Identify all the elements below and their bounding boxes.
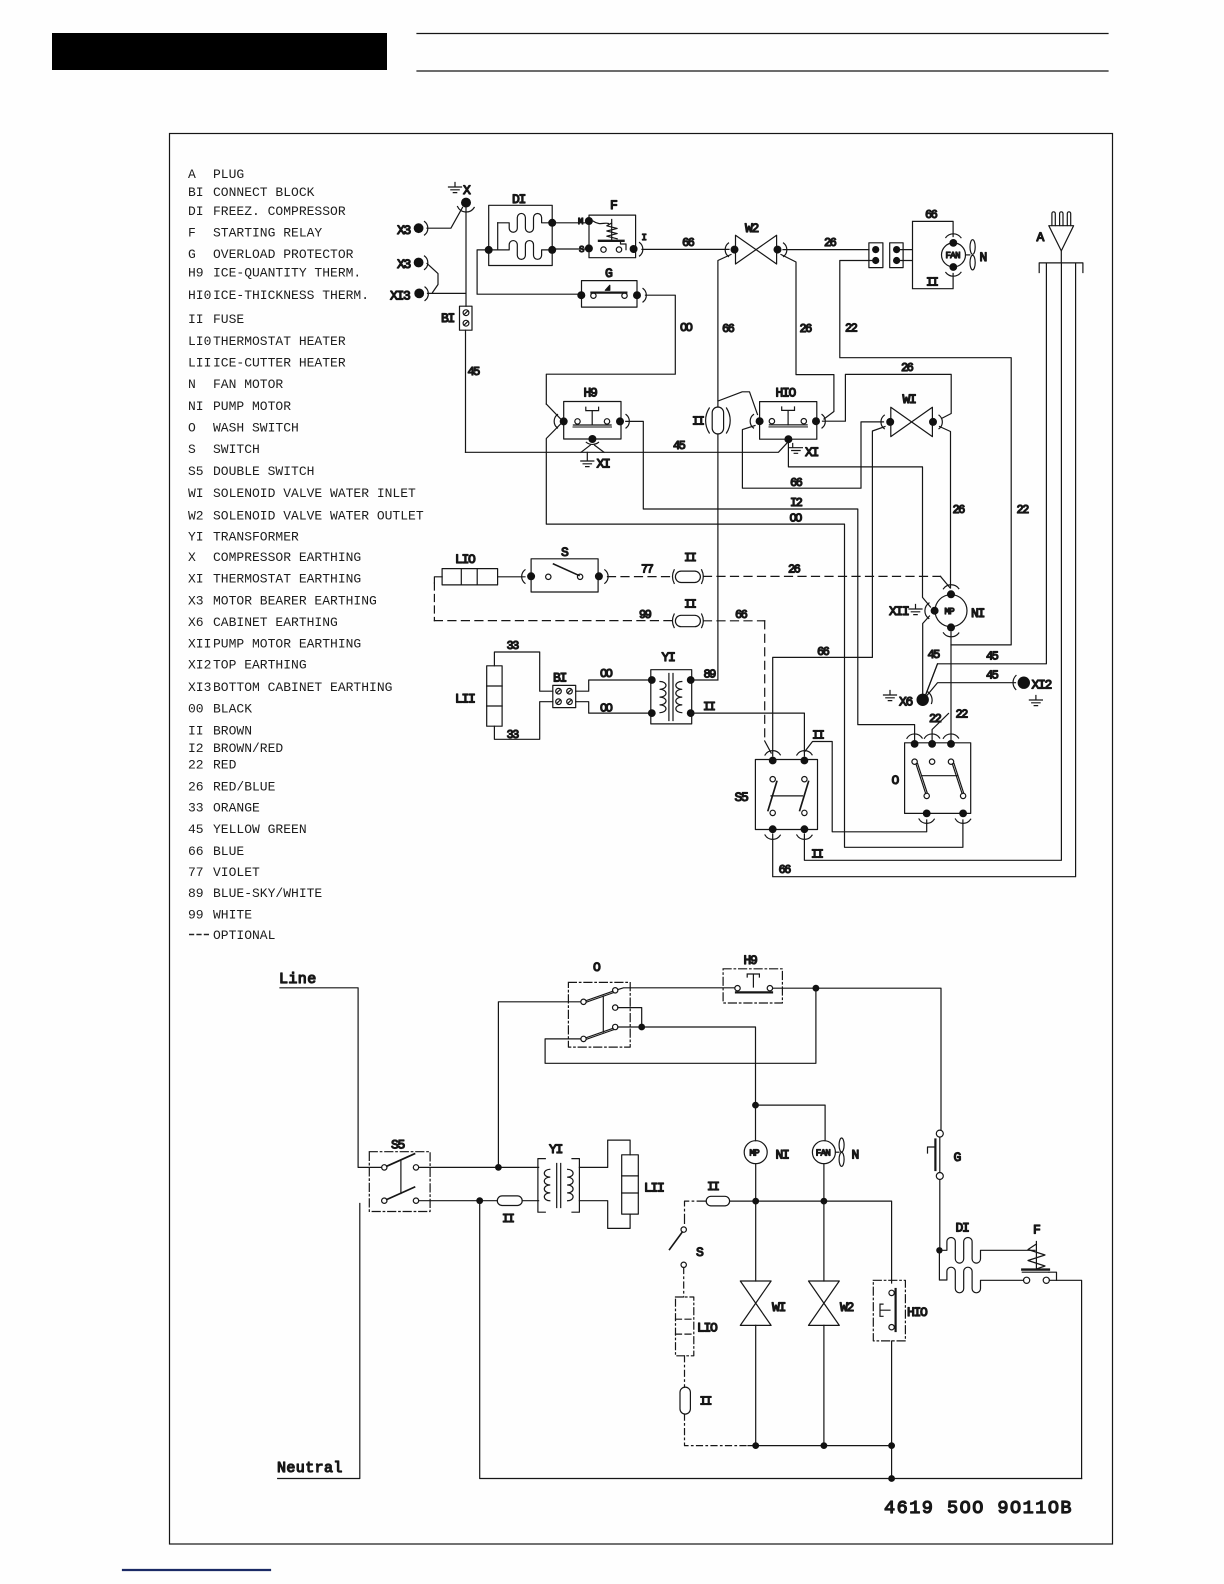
- wire 66 H10 left to W1 left: [742, 422, 883, 488]
- svg-text:IIFUSE: IIFUSE: [188, 312, 244, 327]
- svg-text:II: II: [811, 848, 823, 862]
- wire 45 X6 to X12: [927, 683, 1016, 696]
- wire Neutral to S5: [278, 1204, 360, 1479]
- svg-text:45: 45: [468, 365, 481, 379]
- wire G to D1 junction: [939, 1180, 941, 1251]
- svg-text:22: 22: [956, 708, 969, 722]
- svg-text:45: 45: [986, 669, 999, 683]
- wire D1 S to F: [552, 248, 589, 250]
- svg-text:33ORANGE: 33ORANGE: [188, 801, 260, 816]
- node junction fan rail: [821, 1198, 828, 1205]
- connect block pair: [869, 243, 883, 268]
- wire II S5 right top to O switch: [804, 742, 926, 832]
- svg-text:LII: LII: [644, 1181, 664, 1196]
- svg-text:XI2TOP EARTHING: XI2TOP EARTHING: [188, 658, 307, 673]
- wire O top to H9: [618, 988, 735, 990]
- wire Y1 to L11 bottom: [579, 1201, 630, 1229]
- header rule bottom: [417, 70, 1108, 72]
- svg-text:XI: XI: [597, 457, 611, 472]
- node junction neutral branch: [476, 1197, 483, 1204]
- fuse II transformer feed: [497, 1196, 522, 1206]
- svg-text:II: II: [926, 276, 938, 290]
- wire 66 W1 left down to S5: [773, 427, 885, 757]
- svg-text:II: II: [812, 729, 824, 743]
- fan propeller: [966, 254, 970, 256]
- wire 66 F to W2: [642, 248, 729, 250]
- wire 45 X6 up to cord: [926, 664, 938, 695]
- wire 00 H9 left to O switch: [546, 404, 963, 847]
- node junction O motor feed: [638, 1024, 645, 1031]
- node junction G to D1: [936, 1247, 942, 1253]
- svg-text:66: 66: [722, 322, 735, 336]
- svg-text:MP: MP: [945, 607, 955, 617]
- svg-text:26: 26: [901, 361, 914, 375]
- svg-text:OO: OO: [790, 512, 803, 526]
- node X12 top earthing: [1018, 677, 1030, 689]
- node junction neutral rail: [888, 1475, 895, 1482]
- svg-text:66: 66: [817, 645, 830, 659]
- svg-text:Line: Line: [279, 971, 317, 988]
- svg-text:I2BROWN/RED: I2BROWN/RED: [188, 741, 283, 756]
- wire O switch feed up: [498, 1002, 581, 1168]
- wire O middle to motors: [618, 1008, 642, 1027]
- svg-text:XI: XI: [805, 445, 819, 460]
- svg-text:66: 66: [790, 476, 803, 490]
- wire 26 H10 right to W1 right: [823, 374, 952, 421]
- svg-text:WI: WI: [903, 392, 917, 407]
- wire 45 cord to X6: [926, 263, 1047, 694]
- svg-text:FAN: FAN: [946, 251, 961, 261]
- wire 00 B1 to Y1 bottom: [576, 702, 651, 713]
- wire 45 H10 bottom to pump earthing: [788, 443, 930, 607]
- svg-text:X3: X3: [397, 257, 411, 272]
- wire 66 W2 left down to fuse: [718, 255, 731, 408]
- svg-text:66BLUE: 66BLUE: [188, 844, 244, 859]
- svg-text:II: II: [703, 700, 715, 714]
- svg-text:BI: BI: [553, 671, 567, 686]
- wire H9 out to G with junction: [773, 988, 941, 1129]
- wire 26 W2 right down to H10: [781, 255, 834, 420]
- svg-text:FSTARTING RELAY: FSTARTING RELAY: [188, 226, 322, 241]
- svg-text:MP: MP: [750, 1148, 760, 1158]
- svg-text:33: 33: [507, 728, 520, 742]
- svg-text:45: 45: [673, 439, 686, 453]
- svg-text:77: 77: [641, 563, 654, 577]
- svg-text:X6: X6: [899, 695, 913, 710]
- svg-text:F: F: [1033, 1223, 1040, 1238]
- wire Y1 to L11 top: [579, 1140, 630, 1167]
- svg-text:NFAN MOTOR: NFAN MOTOR: [188, 377, 283, 392]
- svg-text:XIIPUMP MOTOR EARTHING: XIIPUMP MOTOR EARTHING: [188, 637, 361, 652]
- wire X3 lower jog to X13 wire: [427, 264, 438, 293]
- wire junction to pump: [755, 1105, 757, 1141]
- svg-text:66: 66: [925, 208, 938, 222]
- wire S5 to Y1 top with junction: [419, 1166, 539, 1168]
- svg-text:H9ICE-QUANTITY THERM.: H9ICE-QUANTITY THERM.: [188, 266, 361, 281]
- svg-text:LIO: LIO: [697, 1321, 718, 1336]
- svg-text:M: M: [578, 217, 583, 227]
- svg-text:S: S: [579, 245, 584, 255]
- switch S optional: [681, 1227, 686, 1232]
- svg-text:X3MOTOR BEARER EARTHING: X3MOTOR BEARER EARTHING: [188, 594, 377, 609]
- wire 00 B1 to Y1 top: [576, 680, 651, 691]
- wire D1 M to F: [552, 222, 589, 224]
- svg-text:Neutral: Neutral: [277, 1460, 343, 1477]
- svg-text:89BLUE-SKY/WHITE: 89BLUE-SKY/WHITE: [188, 886, 322, 901]
- wire 45 B1 down: [465, 330, 467, 452]
- wire junction to fan: [756, 1105, 826, 1141]
- wire 66 cord to S5: [773, 263, 1076, 876]
- svg-text:GOVERLOAD PROTECTOR: GOVERLOAD PROTECTOR: [188, 247, 354, 262]
- wire Line to S5: [280, 988, 382, 1168]
- svg-text:XCOMPRESSOR EARTHING: XCOMPRESSOR EARTHING: [188, 550, 361, 565]
- svg-text:45: 45: [928, 648, 941, 662]
- svg-text:NIPUMP MOTOR: NIPUMP MOTOR: [188, 399, 291, 414]
- svg-text:66: 66: [682, 236, 695, 250]
- svg-text:XII: XII: [889, 604, 909, 619]
- svg-text:HI0ICE-THICKNESS THERM.: HI0ICE-THICKNESS THERM.: [188, 288, 369, 303]
- svg-text:66: 66: [735, 608, 748, 622]
- node X earthing dot: [461, 198, 471, 208]
- svg-text:XITHERMOSTAT EARTHING: XITHERMOSTAT EARTHING: [188, 572, 361, 587]
- svg-text:YI: YI: [549, 1142, 563, 1157]
- valve rail bottom: [748, 1445, 892, 1447]
- svg-text:33: 33: [507, 639, 520, 653]
- ground X compressor earthing: [449, 183, 462, 193]
- svg-text:NI: NI: [776, 1148, 790, 1163]
- svg-text:DIFREEZ. COMPRESSOR: DIFREEZ. COMPRESSOR: [188, 204, 346, 219]
- wire S5 to fuse II: [419, 1200, 498, 1202]
- wire motors to valve rail: [756, 1164, 824, 1201]
- svg-text:APLUG: APLUG: [188, 167, 244, 182]
- svg-text:F: F: [610, 198, 617, 213]
- wire L10 to S: [498, 576, 525, 578]
- wire 00 G right to H9 left: [546, 295, 675, 404]
- svg-text:22: 22: [845, 322, 858, 336]
- svg-text:99WHITE: 99WHITE: [188, 908, 252, 923]
- wire 26 dashed fuse to pump motor: [704, 575, 941, 577]
- svg-text:II: II: [700, 1395, 712, 1409]
- ground X1 at H9: [586, 442, 598, 444]
- svg-text:OO: OO: [680, 321, 693, 335]
- svg-text:H9: H9: [744, 953, 758, 968]
- rail to valves: [730, 1201, 892, 1283]
- svg-text:LIIICE-CUTTER HEATER: LIIICE-CUTTER HEATER: [188, 356, 346, 371]
- svg-text:S5: S5: [735, 790, 749, 805]
- svg-text:OPTIONAL: OPTIONAL: [213, 928, 275, 943]
- node junction S5 to O feed: [495, 1164, 502, 1171]
- svg-text:O: O: [593, 960, 601, 975]
- wire 26 W1 right down to pump motor: [940, 427, 951, 589]
- pump motor N1 (line diagram): [744, 1141, 767, 1164]
- fan motor N loop: [897, 221, 954, 288]
- svg-text:26: 26: [824, 236, 837, 250]
- svg-text:LII: LII: [455, 692, 475, 707]
- ground X1 at H10: [789, 444, 802, 454]
- fan motor N (line diagram): [812, 1141, 835, 1164]
- node junction H9 output: [813, 985, 820, 992]
- wire X3 to X dot: [427, 208, 463, 229]
- svg-text:NI: NI: [971, 606, 985, 621]
- wire dashed optional S chain: [685, 1201, 707, 1225]
- svg-text:A: A: [1037, 230, 1045, 245]
- plug cord clamp: [1039, 251, 1083, 273]
- svg-text:4619 5OO 9O11OB: 4619 5OO 9O11OB: [884, 1498, 1073, 1519]
- wire 33 L11 bottom to B1: [494, 702, 552, 740]
- wire X13 to B1: [428, 292, 466, 294]
- svg-text:LIO: LIO: [455, 552, 476, 567]
- node junction W2 rail: [821, 1442, 828, 1449]
- svg-text:HIO: HIO: [776, 386, 797, 401]
- svg-text:WISOLENOID VALVE WATER INLET: WISOLENOID VALVE WATER INLET: [188, 486, 416, 501]
- svg-text:XI2: XI2: [1032, 678, 1052, 693]
- svg-text:26: 26: [800, 322, 813, 336]
- svg-text:OWASH SWITCH: OWASH SWITCH: [188, 421, 299, 436]
- node junction pump rail: [752, 1198, 759, 1205]
- wire 99 dashed L10 to S5: [434, 620, 672, 622]
- svg-text:WI: WI: [772, 1300, 786, 1315]
- svg-text:BICONNECT BLOCK: BICONNECT BLOCK: [188, 185, 315, 200]
- svg-text:S5: S5: [391, 1138, 405, 1153]
- svg-text:OO: OO: [600, 667, 613, 681]
- wire fuse top to H10 left: [718, 392, 758, 415]
- pump motor N1: [935, 595, 967, 627]
- svg-text:BI: BI: [441, 311, 455, 326]
- svg-text:I: I: [642, 233, 647, 243]
- svg-text:DI: DI: [956, 1221, 970, 1236]
- svg-text:26: 26: [788, 563, 801, 577]
- wire 12 H9 right to O switch: [626, 421, 915, 740]
- svg-text:II: II: [707, 1180, 719, 1194]
- wire 22 connector to pump motor: [840, 261, 1011, 645]
- svg-text:II: II: [692, 415, 704, 429]
- svg-text:26RED/BLUE: 26RED/BLUE: [188, 780, 276, 795]
- svg-text:YI: YI: [662, 650, 676, 665]
- svg-text:S: S: [696, 1245, 704, 1260]
- wire O bottom loop to junction: [545, 988, 816, 1063]
- svg-text:99: 99: [639, 608, 652, 622]
- node junction motor branch: [752, 1102, 759, 1109]
- svg-text:IIBROWN: IIBROWN: [188, 724, 252, 739]
- svg-text:77VIOLET: 77VIOLET: [188, 865, 260, 880]
- svg-text:W2: W2: [745, 221, 759, 236]
- svg-text:45YELLOW GREEN: 45YELLOW GREEN: [188, 822, 307, 837]
- wire X dot down to B1: [465, 208, 467, 307]
- node X6 cabinet earthing: [917, 694, 929, 706]
- svg-text:N: N: [980, 250, 987, 265]
- svg-text:SSWITCH: SSWITCH: [188, 442, 260, 457]
- footer blue line: [123, 1569, 270, 1571]
- svg-text:OO: OO: [600, 702, 613, 716]
- svg-text:LI0THERMOSTAT HEATER: LI0THERMOSTAT HEATER: [188, 334, 346, 349]
- svg-text:S5DOUBLE SWITCH: S5DOUBLE SWITCH: [188, 464, 314, 479]
- svg-text:X: X: [463, 183, 471, 198]
- diagram border frame: [170, 134, 1113, 1545]
- svg-text:22: 22: [1017, 503, 1030, 517]
- wire II cord to S5: [804, 263, 1061, 860]
- svg-text:H9: H9: [584, 386, 598, 401]
- svg-text:XI3BOTTOM CABINET EARTHING: XI3BOTTOM CABINET EARTHING: [188, 680, 392, 695]
- wire 26 W2 to connector: [783, 249, 869, 251]
- svg-text:22RED: 22RED: [188, 758, 237, 773]
- wire Y1 top right to fuse line: [691, 679, 718, 681]
- svg-text:HIO: HIO: [907, 1305, 928, 1320]
- wire L10 left dashed down: [434, 577, 442, 583]
- wire II Y1 bottom right to S5: [691, 713, 805, 756]
- wire rail to neutral: [891, 1446, 893, 1479]
- svg-text:II: II: [684, 551, 696, 565]
- svg-text:S: S: [561, 545, 569, 560]
- svg-text:45: 45: [986, 650, 999, 664]
- wire MP bottom down to O switch: [950, 632, 952, 744]
- svg-text:X3: X3: [397, 223, 411, 238]
- header black bar: [52, 33, 387, 70]
- svg-text:XI3: XI3: [390, 289, 410, 304]
- wire 33 L11 top to B1: [494, 652, 552, 691]
- svg-text:II: II: [684, 598, 696, 612]
- wire 22 O middle terminal: [932, 714, 948, 744]
- svg-text:FAN: FAN: [816, 1148, 831, 1158]
- svg-text:I2: I2: [790, 496, 803, 510]
- legend optional dash sample: [189, 934, 209, 936]
- svg-text:O: O: [892, 773, 900, 788]
- svg-text:G: G: [605, 266, 612, 281]
- fuse II optional: [680, 1387, 690, 1414]
- svg-text:YITRANSFORMER: YITRANSFORMER: [188, 530, 299, 545]
- wire 77 dashed S to fuse: [608, 576, 673, 578]
- wire F to neutral rail: [1049, 1280, 1081, 1478]
- svg-text:26: 26: [953, 503, 966, 517]
- svg-text:66: 66: [779, 863, 792, 877]
- neutral rail: [480, 1201, 1082, 1479]
- svg-text:00BLACK: 00BLACK: [188, 702, 252, 717]
- svg-text:W2SOLENOID VALVE WATER OUTLET: W2SOLENOID VALVE WATER OUTLET: [188, 509, 424, 524]
- node junction H10 rail: [888, 1442, 895, 1449]
- fan motor N: [942, 243, 966, 267]
- wire 45 B1 to H10: [466, 442, 789, 453]
- svg-text:II: II: [502, 1212, 514, 1226]
- svg-text:G: G: [954, 1150, 961, 1165]
- svg-text:W2: W2: [840, 1300, 854, 1315]
- svg-text:X6CABINET EARTHING: X6CABINET EARTHING: [188, 615, 338, 630]
- node junction W1 rail: [752, 1442, 759, 1449]
- svg-text:22: 22: [929, 712, 942, 726]
- wire MP left down to X6: [923, 616, 930, 694]
- header rule top: [417, 33, 1108, 35]
- svg-text:N: N: [852, 1148, 859, 1163]
- wire D1 left to G left: [477, 250, 581, 294]
- wire fuse down to Y1 89: [717, 434, 719, 680]
